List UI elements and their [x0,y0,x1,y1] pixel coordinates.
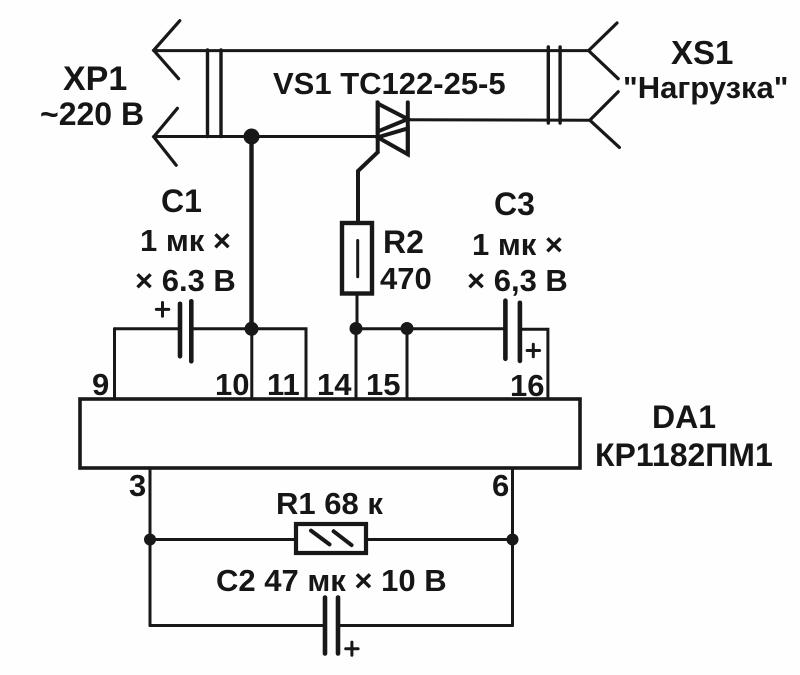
svg-text:~220 В: ~220 В [40,96,144,132]
resistor R1 [296,524,366,553]
svg-text:1 мк ×: 1 мк × [140,223,231,258]
capacitor C1 plus sign [156,303,169,317]
svg-text:1 мк ×: 1 мк × [472,227,563,262]
node junction C1 bus [245,322,259,336]
wire pin 3 riser [149,468,152,626]
svg-text:C3: C3 [494,186,535,222]
wire [154,49,589,52]
svg-text:× 6,3 В: × 6,3 В [467,263,568,298]
capacitor C2 plus sign [346,642,358,655]
wire C1 to node [191,327,251,330]
resistor R2 [342,223,372,294]
svg-text:C1: C1 [161,183,202,219]
wire to C1 [115,327,181,330]
capacitor C3 plate left [503,301,508,359]
capacitor C2 plate left [323,598,328,654]
svg-text:VS1 ТС122-25-5: VS1 ТС122-25-5 [273,66,506,101]
svg-text:6: 6 [492,468,509,503]
node junction pin15 [401,322,414,335]
node junction pin3/R1 [144,534,156,546]
wire [154,135,378,138]
resistor R1 diagonal marks [311,531,352,546]
connector XS1 contact bar right [558,47,561,123]
capacitor C2 plate right [336,598,341,654]
node junction mains [244,129,260,145]
wire pin 6 riser [511,468,514,626]
wire pin 14 riser [355,329,358,400]
svg-text:10: 10 [215,367,249,402]
svg-text:470: 470 [380,261,432,296]
wire pin 15 riser [406,329,409,400]
plug XP1 lower pin [154,108,178,165]
capacitor C3 plate right [518,303,523,361]
svg-text:R2: R2 [383,224,424,260]
op-amp U1 : IC DA1 body [80,399,580,468]
wire to pin 11 [252,329,307,399]
capacitor C3 plus sign [527,344,540,357]
capacitor C1 plate left [178,304,183,357]
resistor R2 inner mark [356,241,359,277]
wire [356,294,359,329]
svg-text:14: 14 [317,367,352,402]
wire bottom right [338,624,513,627]
wire pin 9 riser [113,329,116,399]
svg-text:DA1: DA1 [652,399,716,435]
wire bottom left [150,624,325,627]
node junction pin6/R1 [507,534,519,546]
wire to R1 left [150,538,296,541]
wire pin 10 riser [250,329,253,399]
connector XP1 contact bar left [206,50,209,137]
svg-text:11: 11 [267,367,300,402]
svg-text:15: 15 [366,367,400,402]
wire [408,118,590,121]
plug XP1 upper pin [154,21,180,79]
wire bus to C3 [356,327,505,330]
connector XS1 contact bar left [547,47,550,123]
svg-text:× 6.3 В: × 6.3 В [135,263,236,298]
triac VS1 [358,102,408,223]
node junction R2/bus [350,322,363,335]
svg-text:3: 3 [129,468,146,503]
wire pin 16 [520,329,548,399]
svg-text:XP1: XP1 [63,60,127,98]
svg-text:XS1: XS1 [671,34,733,71]
svg-text:C2 47 мк × 10 В: C2 47 мк × 10 В [216,563,447,598]
wire mains branch vertical [249,137,253,329]
connector XP1 contact bar right [219,50,222,137]
capacitor C1 plate right [189,301,194,361]
socket XS1 lower contact [590,92,620,148]
svg-text:16: 16 [510,368,544,403]
socket XS1 upper contact [589,23,619,79]
svg-text:R1 68 к: R1 68 к [276,486,383,521]
svg-text:КР1182ПМ1: КР1182ПМ1 [595,437,773,473]
wire from R1 right [366,538,513,541]
svg-text:9: 9 [92,367,109,402]
svg-text:"Нагрузка": "Нагрузка" [623,70,788,105]
